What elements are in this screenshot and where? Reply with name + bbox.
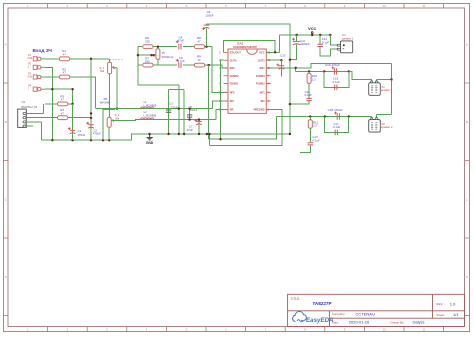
wire C17 loop — [325, 117, 349, 133]
wire C18 row — [277, 116, 372, 118]
wire L2 to RR — [216, 110, 228, 120]
capacitor C15 — [331, 67, 336, 75]
junction rail right — [206, 133, 208, 135]
junction feed L1 row — [178, 108, 180, 110]
resistor R11 — [308, 120, 312, 128]
svg-text:VCC: VCC — [259, 50, 265, 54]
junction X1 right — [390, 78, 392, 80]
junction wiper b — [153, 54, 155, 56]
junction R4 out — [90, 117, 92, 119]
wire P3 to R2 — [45, 76, 60, 78]
junction P5 top — [157, 46, 159, 48]
op-amp U DA1 KA2206BN/TA8227P — [219, 42, 271, 114]
svg-text:220nF: 220nF — [190, 108, 198, 112]
svg-text:220nF: 220nF — [171, 105, 179, 109]
junction R11 top — [309, 115, 311, 117]
connector U1 DS1070-2_54 — [18, 100, 38, 127]
svg-text:B: B — [466, 120, 468, 124]
wire C14 to K3 pin2 — [320, 47, 337, 57]
junction pin12 — [274, 51, 276, 53]
svg-text:47uF: 47uF — [187, 128, 194, 132]
wire top loop to right vertical — [207, 24, 290, 134]
svg-text:NF1: NF1 — [260, 90, 265, 94]
connector K3 speaker 2 — [337, 33, 353, 53]
pin P3 — [28, 72, 45, 79]
svg-text:47: 47 — [197, 39, 201, 43]
capacitor C11 — [292, 38, 300, 45]
junction C16 right — [348, 70, 350, 72]
svg-text:speaker 1: speaker 1 — [381, 88, 393, 92]
svg-text:TITLE:: TITLE: — [291, 297, 301, 301]
wire P1 to R1 — [45, 58, 60, 60]
wire X2 pin1 stub — [371, 117, 373, 120]
wire down to rail B — [208, 65, 210, 139]
svg-text:C: C — [5, 198, 7, 202]
potentiometer P5 — [156, 49, 160, 60]
pin P4 — [28, 85, 45, 92]
wire C11 top — [296, 35, 298, 41]
svg-text:47: 47 — [61, 111, 65, 115]
wire C10 branch — [280, 60, 282, 76]
svg-text:1.0: 1.0 — [450, 302, 456, 307]
svg-text:Drawn By:: Drawn By: — [391, 320, 405, 324]
junction R9 gnd branch — [208, 64, 210, 66]
wire vcc to K3 pin1 — [330, 35, 337, 45]
junction P4 to C1 branch — [71, 88, 73, 90]
junction C9 tap — [205, 46, 207, 48]
junction rail C — [208, 133, 210, 135]
wire rail B to C18 row — [209, 117, 277, 140]
svg-text:330: 330 — [145, 39, 150, 43]
wire C11 gnd jog — [290, 45, 297, 60]
resistor R8 — [194, 36, 204, 49]
svg-text:2020-01-16: 2020-01-16 — [349, 320, 370, 325]
svg-text:47: 47 — [197, 58, 201, 62]
svg-text:BS2: BS2 — [230, 66, 236, 70]
wire R1 out / node to pot R_1 — [69, 58, 109, 60]
wire X2 pin2 stub — [375, 115, 377, 120]
wire R8 out — [205, 46, 212, 48]
resistor R1 — [59, 49, 69, 61]
capacitor C12 — [306, 98, 311, 100]
wire X1 pin2 row — [376, 79, 391, 81]
svg-text:DA1: DA1 — [237, 42, 243, 46]
wire C2 branch from R1 node — [90, 59, 92, 140]
svg-text:BS1: BS1 — [260, 66, 266, 70]
resistor R6 — [143, 36, 153, 49]
wire C14 top — [319, 35, 321, 44]
capacitor C1 — [68, 127, 76, 134]
connector X1 speaker 1 — [369, 81, 393, 95]
wire R11 to C13 — [309, 128, 311, 142]
resistor R3 — [58, 94, 68, 105]
svg-text:330: 330 — [145, 60, 150, 64]
wire X2 pin2 row — [376, 114, 391, 116]
junction rail right end — [289, 133, 291, 135]
svg-text:L_RCH895: L_RCH895 — [143, 104, 156, 108]
svg-text:470uF: 470uF — [93, 132, 101, 136]
wire R6 to C4 — [154, 46, 177, 48]
wire vcc rail — [280, 34, 331, 36]
junction rail R_2 — [108, 139, 110, 141]
wire P5 wiper row — [138, 54, 154, 56]
wire U1 pin2 to R4 — [26, 117, 58, 119]
svg-text:EasyEDA: EasyEDA — [306, 317, 334, 324]
junction gnd vertical C11 — [289, 59, 291, 61]
svg-text:100uF: 100uF — [206, 13, 214, 17]
svg-text:IN1: IN1 — [261, 99, 266, 103]
wire L2 row — [112, 120, 216, 121]
capacitor C13 — [308, 143, 313, 145]
mech dashed link — [107, 58, 124, 60]
wire C1 branch — [72, 104, 74, 140]
wire feed down to rail — [178, 85, 180, 134]
svg-text:CCTENAU: CCTENAU — [356, 312, 375, 317]
svg-text:TA8227P: TA8227P — [312, 301, 331, 306]
capacitor C6 — [187, 115, 192, 117]
wire U1 pin4 stub — [26, 125, 33, 127]
inductor L1 — [141, 107, 154, 109]
resistor R10 — [307, 73, 311, 83]
svg-text:A: A — [466, 43, 468, 47]
svg-text:0.1uF: 0.1uF — [333, 80, 340, 84]
junction rail C2 — [90, 139, 92, 141]
wire vcc stub — [311, 34, 313, 36]
wire R2 out down — [69, 77, 95, 109]
svg-text:OUT2: OUT2 — [230, 58, 237, 62]
svg-text:47uF: 47uF — [178, 39, 185, 43]
svg-text:KS2: KS2 — [28, 75, 33, 78]
resistor R2 — [59, 67, 69, 79]
svg-text:1/1: 1/1 — [453, 312, 459, 317]
wire to R6 — [138, 46, 142, 48]
wire R_1 bottom to R_2 top — [109, 74, 111, 118]
junction tone mid — [137, 54, 139, 56]
potentiometer R_2 — [107, 117, 111, 127]
wire main ground rail — [42, 134, 290, 140]
wire to R7 — [138, 64, 142, 66]
wire to X1 pin1 — [349, 71, 372, 82]
svg-text:DS1070-2_54: DS1070-2_54 — [21, 105, 38, 109]
svg-text:RR: RR — [230, 108, 234, 112]
wire C4 to R8 — [183, 46, 194, 48]
resistor R4 — [58, 108, 68, 119]
wire C16 loop — [324, 71, 349, 87]
svg-text:KS2: KS2 — [28, 57, 33, 60]
junction gnd vertical C12 — [289, 103, 291, 105]
junction C6 top — [188, 108, 190, 110]
wire R8 net to NF2 — [212, 47, 228, 93]
svg-text:L_RCH895: L_RCH895 — [143, 114, 156, 118]
wire U1 pin1 up to R3 net — [43, 104, 45, 114]
svg-text:50k: 50k — [100, 69, 105, 73]
wire X1 pin2 stub — [375, 80, 377, 83]
svg-text:FGND2: FGND2 — [230, 74, 239, 78]
wire R_1 wiper down — [116, 68, 118, 109]
junction wiper a — [150, 54, 152, 56]
wire BS1 long row — [266, 63, 391, 68]
capacitor C16 — [335, 85, 337, 91]
svg-text:2.2: 2.2 — [312, 77, 316, 81]
svg-text:WH148: WH148 — [100, 101, 110, 105]
junction U1 pin1 net — [90, 112, 92, 114]
junction rail C7 — [198, 133, 200, 135]
junction C11 vcc — [295, 34, 297, 36]
wire rail C tie — [209, 134, 211, 146]
wire branch right leg — [183, 90, 185, 135]
junction R3 out — [71, 103, 73, 105]
junction K3 vcc — [329, 34, 331, 36]
svg-text:GND: GND — [146, 141, 154, 145]
junction OUT2 rail B — [219, 138, 221, 140]
wire C9 bottom — [206, 28, 208, 46]
svg-text:50k: 50k — [115, 116, 120, 120]
junction R1 out — [90, 58, 92, 60]
svg-text:Sheet:: Sheet: — [436, 313, 445, 317]
junction rail C3 — [167, 133, 169, 135]
junction C16 left — [323, 70, 325, 72]
svg-text:47: 47 — [63, 52, 67, 56]
svg-text:0.1uF: 0.1uF — [312, 138, 319, 142]
wire C9 top — [206, 24, 208, 25]
svg-text:BTL/OUT: BTL/OUT — [230, 50, 242, 54]
capacitor C14 — [318, 44, 323, 46]
svg-text:speaker 2: speaker 2 — [342, 36, 354, 40]
junction gnd — [148, 133, 150, 135]
svg-text:B: B — [5, 120, 7, 124]
wire BS1 to C15 row — [295, 68, 297, 72]
svg-text:Dalyss: Dalyss — [413, 320, 425, 325]
wire R11 top stub — [309, 117, 311, 120]
capacitor C10 — [277, 64, 285, 70]
wire U1 pin3 to gnd rail — [26, 122, 42, 140]
junction rail leg — [183, 133, 185, 135]
wire C5 to R9 — [183, 64, 194, 66]
wire R10 to C12 — [308, 83, 310, 98]
capacitor C4 — [176, 40, 181, 49]
capacitor C3 — [166, 110, 171, 112]
wire loop top — [169, 89, 185, 91]
wire C15 row — [296, 70, 349, 72]
title block — [288, 294, 465, 326]
svg-text:0.1uF: 0.1uF — [305, 93, 312, 97]
svg-text:Company:: Company: — [332, 312, 346, 316]
svg-text:WH148-1A: WH148-1A — [162, 56, 174, 59]
wire BS1 down to X1 — [391, 63, 393, 79]
capacitor C18 — [334, 112, 339, 120]
junction feed rail — [178, 133, 180, 135]
wire into R3 — [45, 103, 58, 105]
junction C17 right — [348, 115, 350, 117]
wire C13 tail — [300, 145, 310, 152]
junction C6 bottom — [188, 118, 190, 120]
wire OUT1 to C10 — [266, 59, 281, 61]
wire pin12 up to vcc rail — [279, 35, 281, 52]
wire pin12 stub — [266, 51, 279, 53]
wire right vertical to X2 — [391, 80, 393, 115]
wiper R_2 — [112, 120, 115, 122]
wire R3 out — [68, 103, 73, 105]
wire OUT2 down — [221, 60, 224, 139]
svg-text:47: 47 — [61, 98, 65, 102]
wire R7 to C5 — [154, 64, 177, 66]
svg-text:470uF: 470uF — [77, 133, 85, 137]
wire BTL/OUT to VCC node over top — [224, 41, 276, 53]
svg-text:C: C — [466, 198, 468, 202]
junction rail aux — [102, 139, 104, 141]
wire C6 branch — [189, 109, 191, 120]
wire L1 to IN2 — [213, 101, 228, 109]
svg-text:VCC: VCC — [308, 27, 316, 31]
svg-text:47: 47 — [63, 71, 67, 75]
capacitor C2 — [86, 122, 93, 128]
junction OUT1 — [280, 59, 282, 61]
wire R9 to BS2 — [205, 65, 228, 68]
svg-text:0.1uF: 0.1uF — [333, 125, 340, 129]
wire C3 branch — [168, 90, 170, 135]
capacitor C5 — [176, 59, 181, 68]
svg-text:A: A — [5, 43, 7, 47]
junction P2/P4 line — [51, 88, 53, 90]
potentiometer R_1 — [108, 62, 112, 74]
connector X2 speaker 2 — [369, 118, 393, 132]
svg-text:U1: U1 — [22, 100, 26, 104]
pin P1 — [28, 54, 45, 61]
pin P2 — [28, 63, 45, 70]
wire L1 row — [96, 108, 213, 110]
junction BS1 tap — [295, 67, 297, 69]
svg-text:REV:: REV: — [436, 302, 443, 306]
resistor R7 — [143, 56, 153, 67]
wire R10 top stub — [308, 71, 310, 73]
junction rail C1 — [71, 139, 73, 141]
svg-text:2200uF: 2200uF — [300, 42, 310, 46]
wire P5 top — [157, 47, 159, 49]
svg-text:0.1uF: 0.1uF — [322, 40, 329, 44]
inductor L2 — [141, 118, 154, 120]
EasyEDA logo — [293, 312, 307, 322]
wire aux branch — [102, 109, 104, 141]
junction C17 left — [324, 115, 326, 117]
wire aux jog — [103, 109, 115, 111]
svg-text:FGND1: FGND1 — [230, 82, 239, 86]
junction C7 top — [198, 118, 200, 120]
wiper P5 — [155, 54, 156, 56]
wire R_2 bottom to rail — [108, 127, 110, 140]
svg-text:FGND3: FGND3 — [256, 74, 265, 78]
svg-text:C3: C3 — [169, 102, 173, 106]
wire pot R_1 top — [109, 59, 111, 63]
wire C12 to gnd vertical — [290, 101, 309, 104]
svg-text:OUT1: OUT1 — [258, 58, 265, 62]
junction R10 top — [308, 70, 310, 72]
wire U1 pin1 — [26, 112, 44, 114]
wire P5 bottom — [157, 59, 159, 65]
wire P2 down to gnd rail — [45, 67, 52, 140]
capacitor C9 — [202, 25, 209, 30]
svg-text:D: D — [466, 275, 468, 279]
wire tone left vertical and feed — [138, 47, 179, 85]
svg-text:KA2206BN/TA8227P: KA2206BN/TA8227P — [233, 46, 257, 49]
wire R4 out — [68, 117, 91, 119]
svg-text:NF2: NF2 — [230, 90, 235, 94]
wire C7 branch — [198, 120, 200, 134]
wire node to R3 out — [72, 89, 74, 104]
svg-text:C10: C10 — [280, 54, 286, 58]
svg-text:D: D — [5, 275, 7, 279]
svg-text:Вход ЗЧ: Вход ЗЧ — [33, 48, 53, 54]
wiper R_1 — [112, 67, 117, 69]
junction wiper L1 net — [116, 108, 118, 110]
capacitor C7 — [195, 119, 202, 125]
wire P4 row — [45, 88, 73, 90]
resistor R9 — [194, 54, 204, 67]
svg-text:2.2: 2.2 — [313, 124, 317, 128]
svg-text:4.7uF: 4.7uF — [178, 59, 185, 63]
wire PREGND route — [210, 110, 283, 146]
capacitor C17 — [335, 130, 337, 136]
svg-text:IN2: IN2 — [230, 99, 235, 103]
svg-text:PREGND: PREGND — [254, 108, 265, 112]
ground — [146, 134, 152, 140]
junction C14 vcc — [319, 34, 321, 36]
svg-text:speaker 2: speaker 2 — [381, 125, 393, 129]
junction rail P2 — [51, 139, 53, 141]
svg-text:FGND2: FGND2 — [256, 82, 265, 86]
junction vcc sym — [311, 34, 313, 36]
svg-text:C18 470uF: C18 470uF — [328, 108, 343, 112]
